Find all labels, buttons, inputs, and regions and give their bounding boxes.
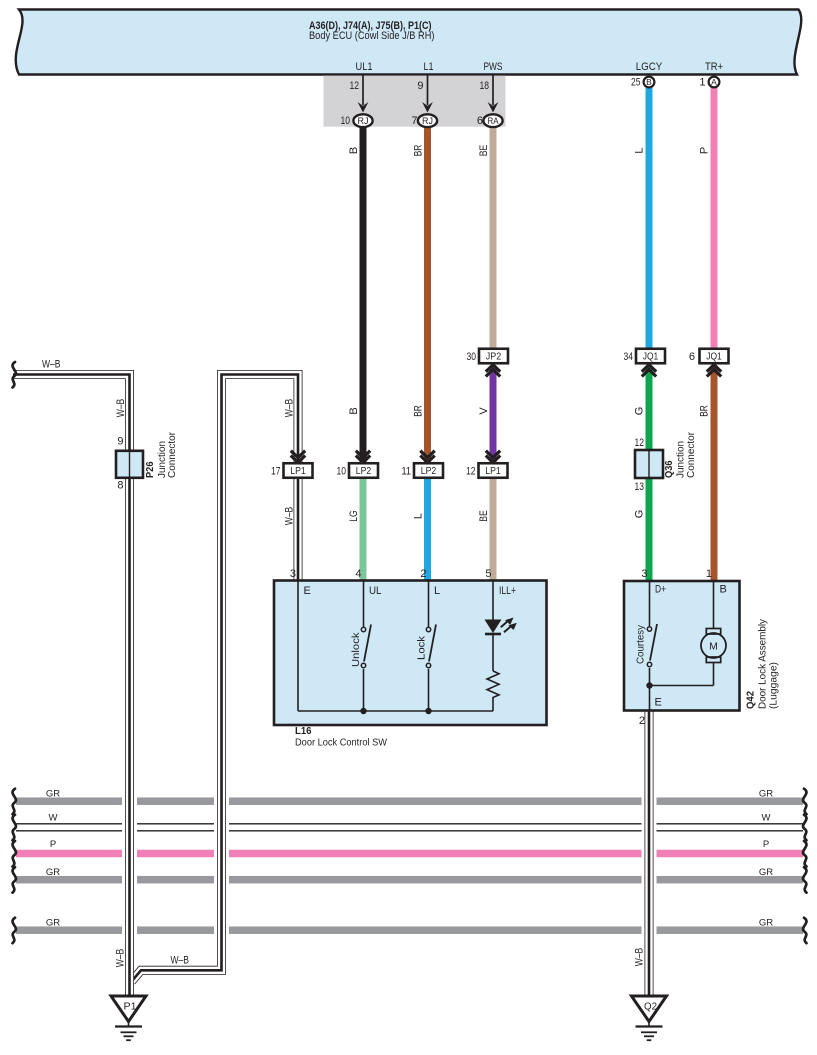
svg-text:LP1: LP1 bbox=[290, 466, 306, 477]
svg-text:A: A bbox=[711, 77, 717, 87]
svg-text:LG: LG bbox=[348, 510, 360, 522]
svg-text:W–B: W–B bbox=[284, 399, 296, 418]
svg-text:8: 8 bbox=[117, 480, 123, 492]
svg-text:G: G bbox=[634, 407, 646, 416]
svg-text:L: L bbox=[634, 147, 646, 153]
svg-text:BR: BR bbox=[699, 405, 711, 417]
svg-text:RA: RA bbox=[488, 116, 500, 127]
svg-text:B: B bbox=[646, 77, 652, 87]
svg-text:G: G bbox=[634, 510, 646, 519]
svg-text:Connector: Connector bbox=[686, 431, 697, 478]
svg-text:1: 1 bbox=[706, 568, 712, 580]
svg-text:E: E bbox=[655, 697, 662, 709]
svg-text:3: 3 bbox=[290, 568, 296, 580]
svg-text:13: 13 bbox=[635, 481, 645, 493]
svg-text:UL1: UL1 bbox=[356, 61, 373, 73]
svg-text:18: 18 bbox=[480, 80, 490, 92]
svg-text:W: W bbox=[762, 813, 771, 824]
svg-text:P: P bbox=[699, 147, 711, 154]
svg-text:Courtesy: Courtesy bbox=[635, 624, 647, 664]
svg-text:W: W bbox=[49, 813, 58, 824]
svg-text:1: 1 bbox=[699, 77, 705, 89]
svg-text:6: 6 bbox=[689, 351, 695, 363]
svg-text:L: L bbox=[434, 585, 440, 597]
svg-text:11: 11 bbox=[402, 465, 412, 477]
svg-text:Junction: Junction bbox=[676, 441, 687, 478]
svg-text:12: 12 bbox=[635, 437, 645, 449]
svg-text:TR+: TR+ bbox=[705, 61, 723, 73]
svg-text:BR: BR bbox=[413, 145, 425, 157]
svg-text:UL: UL bbox=[369, 585, 382, 597]
svg-text:34: 34 bbox=[624, 351, 634, 363]
svg-text:JP2: JP2 bbox=[486, 352, 502, 363]
svg-text:LP2: LP2 bbox=[356, 466, 372, 477]
svg-text:M: M bbox=[709, 641, 718, 653]
svg-text:Door Lock Assembly: Door Lock Assembly bbox=[758, 619, 769, 709]
svg-text:P: P bbox=[50, 839, 56, 850]
svg-text:GR: GR bbox=[46, 918, 60, 929]
svg-text:JQ1: JQ1 bbox=[643, 352, 659, 363]
svg-text:9: 9 bbox=[117, 436, 123, 448]
svg-text:L1: L1 bbox=[424, 61, 434, 73]
svg-text:4: 4 bbox=[355, 568, 361, 580]
svg-text:PWS: PWS bbox=[484, 61, 503, 73]
svg-text:W–B: W–B bbox=[115, 949, 127, 968]
svg-text:BE: BE bbox=[478, 145, 490, 157]
svg-text:Q36: Q36 bbox=[664, 460, 675, 478]
svg-text:25: 25 bbox=[631, 77, 641, 89]
svg-text:P26: P26 bbox=[145, 461, 156, 478]
svg-text:Door Lock Control SW: Door Lock Control SW bbox=[295, 738, 388, 749]
svg-text:D+: D+ bbox=[655, 584, 666, 596]
svg-text:L: L bbox=[413, 513, 425, 519]
svg-text:V: V bbox=[478, 407, 490, 415]
svg-text:5: 5 bbox=[485, 568, 491, 580]
svg-text:6: 6 bbox=[477, 115, 483, 127]
svg-text:RJ: RJ bbox=[422, 116, 433, 127]
svg-text:W–B: W–B bbox=[171, 955, 190, 967]
svg-text:B: B bbox=[348, 147, 360, 154]
svg-text:10: 10 bbox=[337, 465, 347, 477]
svg-text:GR: GR bbox=[46, 867, 60, 878]
svg-text:17: 17 bbox=[271, 465, 281, 477]
svg-text:12: 12 bbox=[350, 80, 360, 92]
svg-text:W–B: W–B bbox=[284, 507, 296, 526]
svg-text:Q2: Q2 bbox=[644, 1001, 657, 1013]
svg-text:W–B: W–B bbox=[634, 948, 646, 967]
svg-text:GR: GR bbox=[759, 867, 773, 878]
svg-text:JQ1: JQ1 bbox=[706, 352, 722, 363]
svg-text:Q42: Q42 bbox=[746, 691, 757, 709]
svg-text:12: 12 bbox=[466, 465, 476, 477]
svg-text:B: B bbox=[720, 584, 727, 596]
svg-text:LP1: LP1 bbox=[485, 466, 501, 477]
svg-text:BE: BE bbox=[478, 510, 490, 522]
svg-text:RJ: RJ bbox=[358, 116, 369, 127]
svg-text:Lock: Lock bbox=[416, 635, 428, 660]
svg-text:B: B bbox=[348, 407, 360, 414]
svg-text:10: 10 bbox=[341, 115, 351, 127]
svg-text:GR: GR bbox=[759, 789, 773, 800]
svg-text:9: 9 bbox=[417, 80, 423, 92]
svg-text:W–B: W–B bbox=[42, 359, 61, 371]
svg-text:LGCY: LGCY bbox=[636, 61, 663, 73]
svg-text:2: 2 bbox=[639, 715, 645, 727]
svg-text:30: 30 bbox=[467, 351, 477, 363]
svg-text:Connector: Connector bbox=[167, 431, 178, 478]
svg-text:W–B: W–B bbox=[115, 399, 127, 418]
svg-text:(Luggage): (Luggage) bbox=[769, 662, 780, 709]
svg-text:2: 2 bbox=[420, 568, 426, 580]
svg-text:ILL+: ILL+ bbox=[499, 585, 516, 597]
svg-text:BR: BR bbox=[413, 405, 425, 417]
svg-text:P: P bbox=[763, 839, 769, 850]
svg-text:GR: GR bbox=[46, 789, 60, 800]
svg-text:7: 7 bbox=[411, 115, 417, 127]
svg-text:3: 3 bbox=[641, 568, 647, 580]
svg-text:LP2: LP2 bbox=[421, 466, 437, 477]
svg-text:P1: P1 bbox=[124, 1001, 137, 1013]
svg-text:E: E bbox=[304, 585, 311, 597]
svg-text:GR: GR bbox=[759, 918, 773, 929]
svg-text:Body ECU (Cowl Side J/B RH): Body ECU (Cowl Side J/B RH) bbox=[309, 30, 435, 42]
svg-text:Unlock: Unlock bbox=[350, 632, 362, 667]
svg-text:L16: L16 bbox=[295, 726, 312, 737]
